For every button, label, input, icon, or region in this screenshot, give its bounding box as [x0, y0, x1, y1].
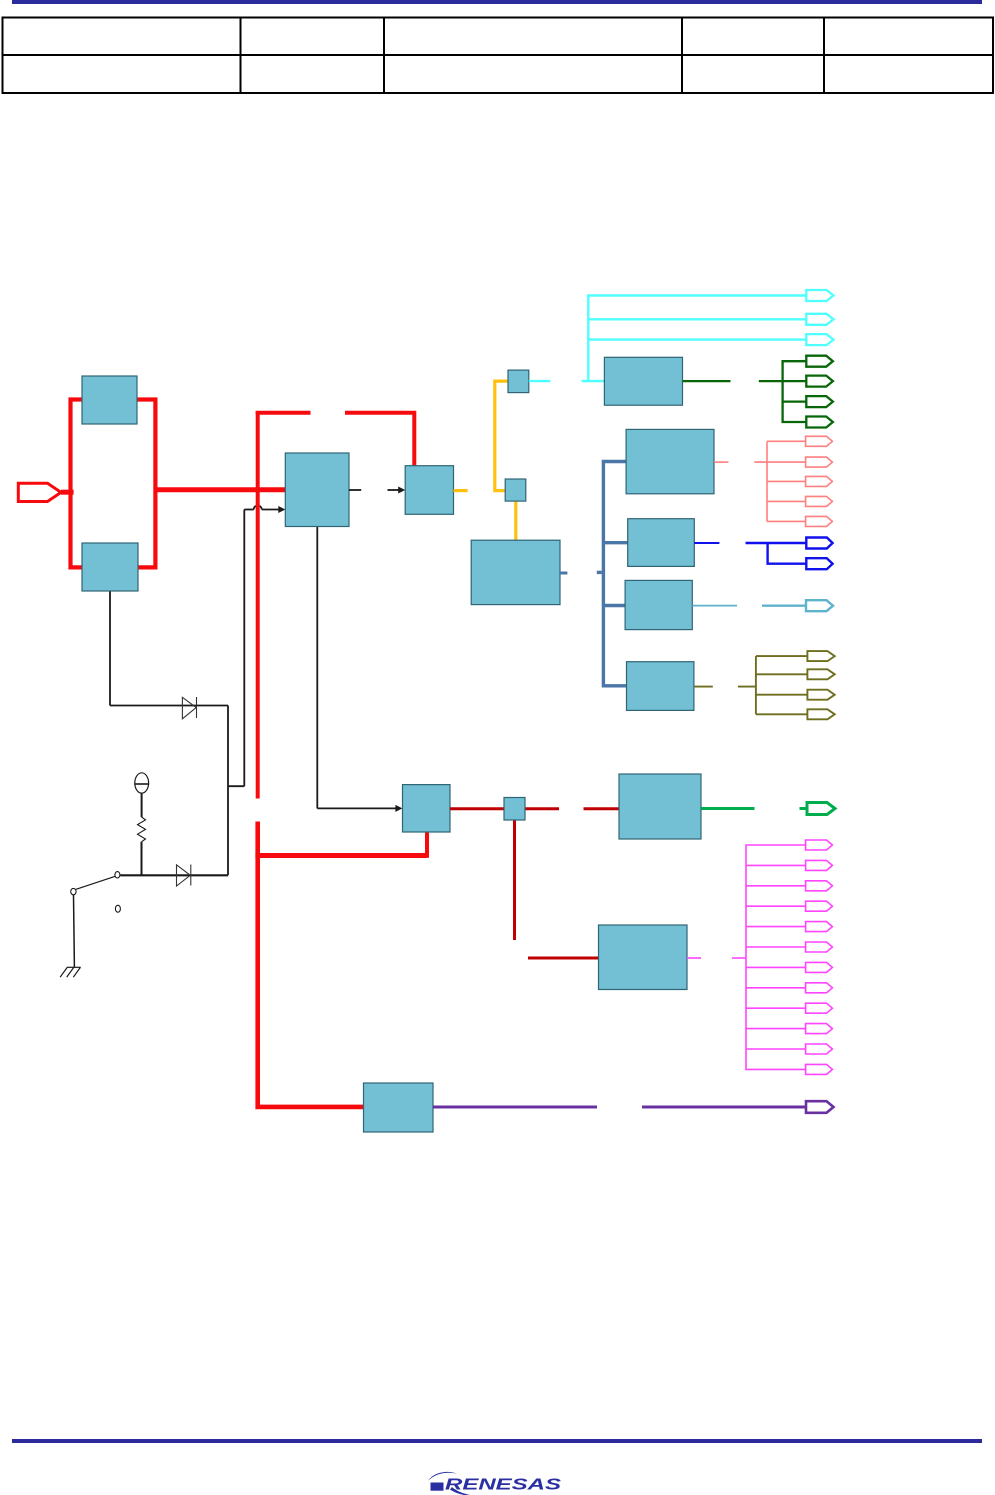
- wire purple output: [433, 1106, 806, 1109]
- wire black arrow into main divider: [388, 489, 400, 491]
- oscillator block X1: [82, 376, 137, 424]
- connector dark green out 1: [806, 356, 833, 367]
- connector salmon out 5: [806, 516, 833, 526]
- wire green output: [701, 807, 807, 810]
- connector magenta out 8: [806, 983, 833, 993]
- wire black PLL1 output dash: [349, 489, 361, 491]
- peripheral block D: [627, 662, 694, 711]
- connector salmon out 1: [806, 436, 833, 446]
- wire red feed to PLL2: [255, 832, 427, 858]
- connector olive out 1: [807, 651, 834, 661]
- connector magenta out 6: [806, 942, 833, 952]
- wire orange distribution: [495, 381, 516, 541]
- connector magenta out 4: [806, 901, 833, 911]
- connector magenta out 10: [806, 1024, 833, 1034]
- wire blue from block B: [694, 543, 806, 564]
- connector magenta out 2: [806, 860, 833, 870]
- wire steel blue trunk: [603, 462, 627, 686]
- connector dark green out 3: [806, 396, 833, 407]
- switch S1: [71, 872, 121, 913]
- wire olive from block D: [694, 656, 808, 714]
- wire steel blue from U5 to trunk: [560, 571, 602, 575]
- wire black from X2 to diode network: [110, 510, 244, 876]
- peripheral block U8 (magenta domain): [599, 925, 688, 990]
- connector magenta out 9: [806, 1003, 833, 1013]
- Renesas logo: [429, 1472, 563, 1495]
- revision table: [3, 18, 994, 94]
- divider block U3: [505, 479, 526, 501]
- wire magenta output stubs: [687, 957, 746, 959]
- divider block U6: [504, 798, 525, 821]
- wire cyan to peripheral block: [529, 380, 605, 382]
- ground: [60, 967, 81, 977]
- wire red oscillator loop: [71, 400, 156, 568]
- wire red dashed branch to divider: [256, 413, 415, 466]
- wire black arrow into PLL1: [244, 506, 279, 510]
- connector light blue out: [806, 600, 833, 611]
- divider block U2: [508, 370, 529, 393]
- connector magenta out 11: [806, 1044, 833, 1054]
- wire dark green from U4: [683, 361, 807, 422]
- divider block U1: [405, 466, 453, 515]
- peripheral block U7 (green domain): [619, 774, 701, 839]
- connector green out: [807, 803, 835, 815]
- wire red vertical distribution (upper): [256, 411, 260, 799]
- connector salmon out 3: [806, 476, 833, 486]
- wire salmon from block A: [714, 441, 806, 521]
- wire cyan output tree: [588, 296, 806, 382]
- wire black PLL1 to PLL2: [317, 527, 396, 808]
- connector olive out 2: [807, 669, 834, 679]
- pull-up supply symbol: [134, 773, 149, 817]
- connector magenta out 7: [806, 962, 833, 972]
- peripheral block U9 (purple domain): [364, 1083, 434, 1132]
- wire light blue from block C: [692, 605, 806, 607]
- wire orange divider output stub: [454, 489, 468, 492]
- connector olive out 4: [807, 709, 834, 719]
- wire magenta trunk: [746, 845, 806, 1069]
- svg-text:RENESAS: RENESAS: [445, 1477, 562, 1494]
- connector cyan out 1: [806, 290, 833, 301]
- wire red main clock bus: [154, 487, 286, 492]
- connector magenta out 3: [806, 881, 833, 891]
- connector olive out 3: [807, 690, 834, 700]
- header bar: [12, 0, 982, 4]
- connector cyan out 2: [806, 314, 833, 325]
- connector salmon out 2: [806, 457, 833, 467]
- PLL1 block: [285, 453, 349, 527]
- wire switch to ground: [73, 895, 76, 967]
- connector blue out 1: [806, 538, 832, 549]
- connector magenta out 1: [806, 840, 833, 850]
- connector cyan out 3: [806, 334, 833, 345]
- footer rule: [12, 1439, 982, 1443]
- connector purple out: [806, 1101, 834, 1113]
- diode D2: [177, 865, 191, 887]
- resistor R1: [138, 817, 146, 842]
- peripheral block B: [628, 519, 695, 567]
- connector XTAL input: [18, 483, 73, 501]
- peripheral block U4 (cyan domain): [604, 357, 682, 405]
- wire dark red PLL2 output: [450, 809, 619, 958]
- connector dark green out 2: [806, 376, 833, 387]
- wire resistor to switch node: [141, 842, 143, 876]
- PLL2 block: [403, 785, 451, 832]
- connector magenta out 12: [806, 1064, 833, 1074]
- diode D1: [182, 697, 196, 719]
- connector dark green out 4: [806, 417, 833, 428]
- peripheral block A: [626, 429, 714, 493]
- peripheral block U5 (wide): [471, 540, 560, 604]
- wire black switch row with diode D2: [120, 874, 228, 876]
- wire red vertical distribution (lower): [258, 822, 364, 1107]
- connector magenta out 5: [806, 922, 833, 932]
- connector salmon out 4: [806, 496, 833, 506]
- oscillator block X2: [82, 543, 138, 591]
- peripheral block C: [625, 580, 692, 629]
- connector blue out 2: [806, 558, 832, 569]
